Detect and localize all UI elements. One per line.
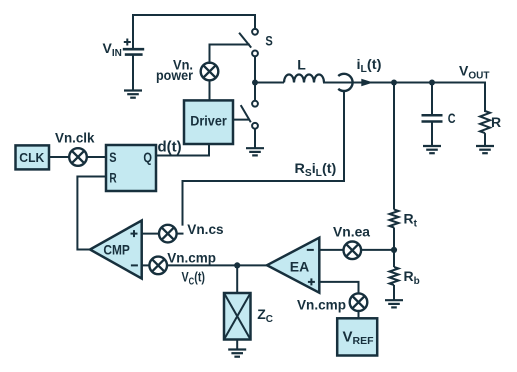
plus sign CMP	[131, 230, 138, 237]
svg-text:C: C	[448, 110, 456, 126]
svg-text:d(t): d(t)	[158, 138, 182, 155]
ground (under Rb)	[385, 300, 403, 307]
minus sign CMP	[131, 264, 138, 266]
junction node feedback divider	[391, 247, 397, 253]
resistor R	[480, 111, 490, 133]
wire Vn.ea to divider junction	[361, 249, 394, 251]
arrowhead iL(t)	[361, 79, 373, 86]
wire Vc(t) net to EA output	[167, 264, 268, 266]
noise source Vn.clk	[69, 148, 87, 166]
flip-flop U2 SR latch	[106, 145, 156, 191]
svg-text:L: L	[297, 57, 306, 73]
wire CMP plus input	[142, 233, 159, 235]
svg-text:R: R	[109, 170, 116, 185]
svg-text:CMP: CMP	[103, 241, 130, 257]
svg-text:Driver: Driver	[190, 113, 227, 129]
junction node C tap	[429, 80, 435, 86]
wire R to ground	[484, 133, 486, 146]
ground (under Vin)	[124, 91, 142, 98]
wire junction to Zc	[236, 265, 238, 293]
svg-text:VC(t): VC(t)	[182, 268, 206, 287]
wire CMP output to R input	[77, 177, 106, 250]
wire node to inductor	[255, 82, 284, 84]
svg-text:power: power	[156, 67, 193, 83]
minus sign EA	[307, 249, 314, 251]
wire Vin top to switch S	[133, 15, 255, 49]
plus sign Vin	[124, 39, 131, 46]
switch S2 lever	[241, 105, 251, 122]
CLK box	[16, 145, 50, 169]
Driver box U1	[184, 100, 233, 144]
wire switch S1 to node	[254, 57, 256, 83]
noise source Vn.ea	[344, 242, 362, 260]
plus sign EA	[308, 278, 315, 285]
wire Driver to switch S2 lever	[233, 119, 249, 121]
resistor Rt	[390, 210, 399, 228]
svg-text:VOUT: VOUT	[459, 63, 489, 82]
svg-text:Q: Q	[143, 150, 152, 165]
wire Vin cap bottom to ground	[132, 55, 134, 91]
ground (under Zc)	[228, 350, 246, 357]
noise source Vn.cmp (reference)	[350, 293, 368, 311]
wire Vn.cmp to Vref	[358, 311, 360, 318]
wire Rt branch from rail	[393, 83, 395, 210]
Vref box	[337, 318, 377, 355]
impedance Zc box	[224, 293, 251, 340]
wire Vn.power to Driver	[209, 80, 211, 100]
resistor Rb	[390, 267, 399, 285]
wire CLK to Vn.clk	[49, 156, 69, 158]
svg-text:ZC: ZC	[257, 306, 273, 325]
wire EA plus input	[319, 282, 358, 293]
svg-text:Vn.clk: Vn.clk	[55, 130, 95, 146]
capacitor Vin plates	[123, 49, 144, 54]
switch S1 lever	[239, 33, 251, 48]
inductor L	[284, 75, 324, 83]
noise source Vn.cs	[159, 225, 177, 243]
wire current sense down	[183, 91, 345, 225]
svg-text:Rb: Rb	[404, 268, 420, 287]
comparator CMP	[90, 221, 142, 279]
svg-text:Vn.cmp: Vn.cmp	[297, 297, 346, 313]
switch S2 bottom contact	[252, 123, 258, 129]
noise source Vn.cmp (comparator)	[149, 257, 167, 275]
wire Q output d(t) to Driver	[156, 144, 209, 156]
junction node Rt tap	[391, 80, 397, 86]
svg-text:VIN: VIN	[103, 40, 122, 59]
svg-text:EA: EA	[290, 259, 309, 275]
switch S2 top contact	[252, 101, 258, 107]
wire C branch	[431, 83, 433, 116]
svg-text:R: R	[491, 114, 501, 130]
wire Vout to R	[484, 83, 486, 112]
svg-text:Vn.cs: Vn.cs	[187, 221, 224, 237]
wire C to ground	[431, 122, 433, 147]
wire Zc to ground	[236, 340, 238, 350]
svg-text:S: S	[265, 33, 272, 49]
current probe iL(t)	[338, 74, 352, 91]
svg-text:Vn.ea: Vn.ea	[333, 224, 370, 240]
ground (under R)	[476, 146, 494, 153]
wire node to switch S2	[254, 83, 256, 101]
switch S1 bottom contact	[252, 51, 258, 57]
svg-text:Vn.cmp: Vn.cmp	[167, 249, 216, 265]
wire CMP minus input	[142, 264, 150, 266]
wire Rt to junction	[393, 228, 395, 268]
capacitor C plates	[422, 115, 443, 121]
switch S1 top contact	[252, 29, 258, 35]
noise source Vn.power	[201, 63, 219, 81]
wire inductor to Vout	[324, 82, 485, 84]
svg-text:S: S	[109, 150, 116, 165]
wire Rb to ground	[393, 285, 395, 300]
junction node Zc tap	[234, 262, 240, 268]
svg-text:iL(t): iL(t)	[357, 56, 382, 75]
svg-text:RSiL(t): RSiL(t)	[295, 160, 337, 179]
wire EA minus input	[319, 249, 343, 251]
error amplifier EA	[267, 238, 319, 293]
wire Vn.power to switch S1 lever	[210, 45, 249, 64]
junction node switch output	[252, 80, 258, 86]
wire Vn.clk to S input	[87, 156, 107, 158]
svg-text:CLK: CLK	[19, 150, 45, 165]
wire switch S2 to ground	[254, 129, 256, 148]
ground (under switch S2)	[246, 148, 264, 155]
ground (under C)	[423, 146, 441, 153]
svg-text:Rt: Rt	[404, 211, 418, 230]
wire Vn.cs to sense line	[177, 233, 183, 235]
